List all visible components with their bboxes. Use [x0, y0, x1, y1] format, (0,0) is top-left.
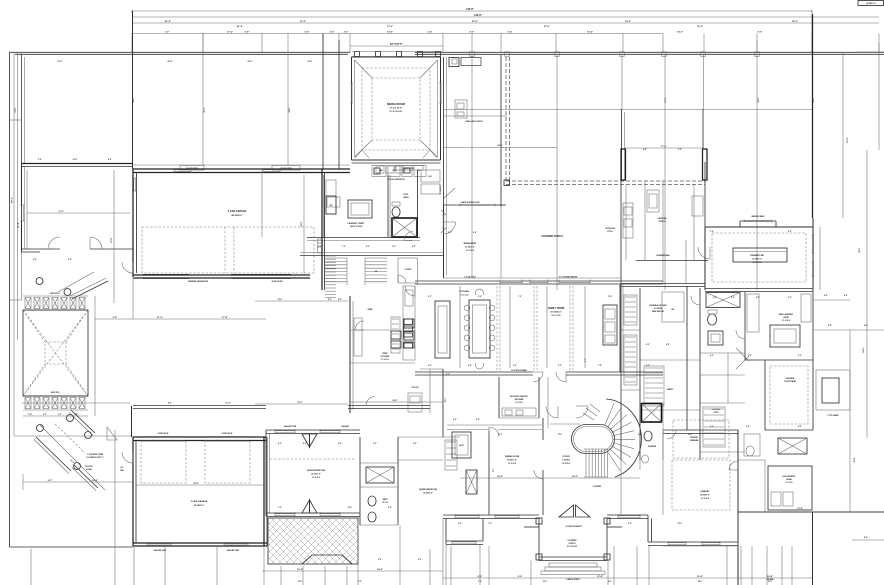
svg-text:4'-0": 4'-0" [453, 418, 457, 421]
svg-text:8'-0": 8'-0" [168, 403, 172, 405]
svg-text:6'-0": 6'-0" [428, 365, 432, 367]
svg-text:10'-0": 10'-0" [768, 581, 773, 583]
svg-text:MORNING BAR: MORNING BAR [656, 254, 670, 257]
dimension line top chain 5 [132, 33, 663, 35]
svg-text:4'-0": 4'-0" [710, 354, 714, 357]
svg-text:5'-4": 5'-4" [428, 31, 433, 34]
his shower xbox [778, 438, 807, 454]
svg-text:POOL: POOL [403, 194, 409, 196]
garage south wall double [133, 274, 310, 276]
svg-text:VERANDA: VERANDA [690, 439, 700, 442]
dimension extension ticks top [131, 34, 133, 53]
2car west door arc [122, 452, 133, 463]
svg-text:2'-0": 2'-0" [344, 32, 349, 34]
porte-cochere bottom band [23, 395, 88, 397]
garage west wall [132, 169, 134, 277]
2car dashed bays [141, 441, 186, 483]
court west wall [21, 164, 23, 253]
svg-text:5'-0": 5'-0" [746, 426, 750, 428]
stair hall wall [550, 423, 580, 425]
svg-text:12'-0X13'-0": 12'-0X13'-0" [465, 247, 475, 249]
east main wall [812, 14, 814, 218]
svg-text:16'-0": 16'-0" [572, 476, 578, 478]
guest ceiling dashed [270, 458, 356, 460]
svg-text:14'-0": 14'-0" [92, 479, 98, 482]
svg-text:A/C: A/C [121, 466, 125, 469]
guest south door leaves [302, 500, 310, 513]
svg-text:4'-0": 4'-0" [318, 245, 322, 248]
dimension line top chain 3 [132, 22, 879, 24]
svg-text:44'-0X24'-0": 44'-0X24'-0" [231, 214, 242, 217]
svg-text:6'-8": 6'-8" [666, 344, 670, 346]
roof overhang dashed rear [506, 180, 705, 182]
svg-text:5'-0": 5'-0" [378, 559, 382, 561]
svg-text:4'-0": 4'-0" [278, 442, 282, 445]
svg-text:9'-0": 9'-0" [418, 559, 422, 561]
driveway vertical lines [30, 549, 32, 585]
garage hall dims [261, 170, 263, 237]
svg-text:17'-6": 17'-6" [227, 32, 233, 34]
stair flight right [365, 257, 387, 259]
outdoor kitchen west wall [620, 181, 622, 290]
court door arcs [48, 237, 60, 249]
gallery east wall [704, 162, 706, 227]
svg-text:WINE: WINE [368, 309, 373, 311]
svg-text:9'-0": 9'-0" [446, 374, 450, 376]
washer dryer boxes [376, 166, 384, 173]
svg-text:WC: WC [671, 309, 675, 311]
guest north door leaves [302, 434, 310, 447]
garage door gaps [143, 274, 189, 278]
media room south sliding door [352, 162, 441, 164]
guest closet xbox [366, 467, 394, 483]
svg-text:LIBRARY: LIBRARY [700, 490, 710, 493]
svg-text:14'X16' 4' ISLD: 14'X16' 4' ISLD [350, 225, 363, 228]
svg-text:7'-0": 7'-0" [278, 507, 282, 509]
curved stair top treads [590, 404, 600, 412]
se hline [663, 545, 738, 547]
svg-text:14'-0X17'-4": 14'-0X17'-4" [507, 459, 517, 462]
svg-text:WINE DISPLAY: WINE DISPLAY [652, 310, 665, 313]
svg-text:4'-0": 4'-0" [864, 324, 868, 327]
porte-cochere canopy rect [23, 310, 88, 396]
svg-text:LIN: LIN [429, 176, 433, 178]
yard vertical b [202, 34, 204, 166]
svg-text:4'-0": 4'-0" [646, 343, 650, 346]
svg-text:ABV SHED RF: ABV SHED RF [390, 43, 403, 46]
her laundry north wall [705, 288, 813, 290]
shower courtyard walls [745, 359, 813, 361]
svg-text:16'-0": 16'-0" [298, 581, 303, 583]
crosshatch patio [268, 518, 358, 564]
svg-text:4'-0 DBL DR BRKOUT: 4'-0 DBL DR BRKOUT [566, 525, 582, 528]
west property line [9, 52, 11, 547]
svg-text:14'-0": 14'-0" [392, 399, 397, 402]
svg-text:4'-0": 4'-0" [58, 413, 62, 416]
walkway diagonals from court [72, 281, 108, 299]
foyer arch arcs [546, 406, 558, 418]
svg-text:6'-0": 6'-0" [788, 231, 792, 233]
primary bed [733, 248, 787, 262]
stair flight left [324, 257, 347, 259]
svg-text:6'-0": 6'-0" [824, 295, 828, 297]
pool equip nook [420, 368, 443, 370]
loggia column boxes top [470, 52, 474, 57]
driveway verticals below garage [133, 546, 135, 585]
veranda dashed [673, 420, 729, 458]
primary east windows [812, 235, 815, 253]
svg-text:KITCHEN: KITCHEN [459, 291, 469, 293]
2car garage west wall [132, 437, 134, 546]
svg-text:TANDEM GARAGE DR: TANDEM GARAGE DR [188, 280, 209, 283]
svg-text:GASLINE VENT: GASLINE VENT [227, 549, 240, 552]
extra dim vline marks [662, 430, 664, 460]
dimension line overall 140'-8 top [132, 10, 812, 12]
patio drive verticals [280, 566, 282, 585]
svg-text:ICE: ICE [418, 170, 421, 172]
patio vertical mid [556, 55, 558, 290]
svg-text:41'-4": 41'-4" [846, 137, 849, 142]
svg-text:41'-8": 41'-8" [237, 25, 243, 28]
svg-text:24'-0": 24'-0" [862, 347, 865, 352]
svg-text:23'-0": 23'-0" [472, 21, 478, 23]
wic shelf hatch [703, 407, 725, 447]
svg-text:11'-0": 11'-0" [498, 434, 503, 436]
svg-text:BATH: BATH [403, 196, 409, 199]
gallery walls [644, 181, 646, 260]
svg-text:LAUNDRY CRAFT: LAUNDRY CRAFT [348, 222, 366, 225]
library east wall [737, 430, 739, 543]
keeping hall walls [620, 372, 622, 403]
se right dim [852, 539, 884, 541]
svg-text:HER LAUNDRY: HER LAUNDRY [779, 313, 794, 316]
guest wing west wall [265, 430, 267, 516]
library south walls [607, 514, 648, 516]
breakfast dim vline [459, 286, 461, 368]
guest south wall double [266, 512, 360, 514]
svg-text:8'-0": 8'-0" [328, 299, 332, 301]
svg-text:2 CAR GARAGE: 2 CAR GARAGE [191, 500, 208, 503]
svg-text:OUTDOOR: OUTDOOR [605, 228, 615, 230]
garage slab dashed [142, 227, 314, 273]
svg-text:6'-0": 6'-0" [33, 259, 37, 261]
courtyard dashed [770, 366, 808, 424]
motor court diagonal wall 3 [74, 465, 98, 488]
east wing walls south [737, 430, 739, 512]
grilling porch column line [471, 55, 473, 278]
grilling porch west wall [443, 57, 445, 278]
svg-text:9'-0": 9'-0" [493, 468, 495, 472]
motor court diagonal dashed [55, 424, 85, 453]
garage interior dim [303, 175, 305, 273]
svg-text:6'-0": 6'-0" [788, 297, 792, 299]
yard vertical c [287, 54, 289, 165]
svg-text:6'-0": 6'-0" [638, 434, 642, 436]
svg-text:8'-6": 8'-6" [798, 426, 802, 428]
svg-text:MORNING KITCHEN: MORNING KITCHEN [649, 305, 667, 307]
bath hall walls [699, 288, 701, 460]
svg-text:17'-4": 17'-4" [222, 316, 228, 319]
garage west door arc [122, 262, 133, 273]
her laundry walls [744, 292, 746, 360]
patio vertical h [756, 40, 758, 290]
svg-text:13'-6": 13'-6" [558, 434, 563, 436]
kitchen west counters [403, 286, 415, 360]
laundry craft room walls [323, 175, 325, 237]
svg-text:5'-4": 5'-4" [113, 316, 118, 319]
primary bay window seat [740, 220, 776, 222]
primary bedroom walls [705, 226, 813, 228]
laundry island [348, 200, 372, 218]
svg-text:3'-0": 3'-0" [428, 296, 432, 298]
motor court angled dim [40, 425, 105, 490]
far east short lines [878, 43, 880, 150]
rear loggia inner line [443, 115, 507, 117]
porch corner column [504, 180, 510, 186]
svg-text:17'-6": 17'-6" [661, 146, 666, 148]
svg-text:14'-0": 14'-0" [698, 580, 703, 583]
svg-text:7'-0": 7'-0" [488, 523, 492, 525]
svg-text:8'-0": 8'-0" [358, 581, 362, 583]
dining east wall [542, 418, 544, 440]
svg-text:24'-0X24'-0": 24'-0X24'-0" [194, 504, 205, 507]
foyer hall arch arcs [533, 372, 543, 382]
svg-text:10'-0": 10'-0" [678, 523, 683, 525]
elevator [452, 432, 471, 458]
media room window west [350, 83, 353, 103]
svg-text:6'-0": 6'-0" [366, 246, 370, 248]
grill equipment boxes [449, 58, 459, 67]
svg-text:8'-0": 8'-0" [756, 297, 760, 299]
rear loggia south edge line [443, 109, 812, 111]
svg-text:12'-0": 12'-0" [348, 507, 353, 509]
front porch walls [538, 518, 540, 560]
svg-text:4'-0": 4'-0" [43, 413, 47, 416]
court A west wall [21, 54, 23, 164]
svg-text:9'-0": 9'-0" [608, 581, 612, 583]
svg-text:57'-8": 57'-8" [18, 222, 20, 228]
mid dim string y319 [95, 318, 266, 320]
svg-text:COVERED: COVERED [567, 540, 577, 542]
court north wall [22, 163, 134, 165]
svg-text:LANTERN: LANTERN [657, 217, 667, 220]
motor court gate door [107, 427, 117, 440]
dimension line top chain 2 [132, 16, 879, 18]
walkway columns [36, 278, 43, 285]
svg-text:21'-0": 21'-0" [665, 97, 667, 102]
court dim line y404 [255, 403, 348, 405]
svg-text:5'-0": 5'-0" [373, 443, 377, 445]
svg-text:17'-0": 17'-0" [387, 26, 393, 28]
study south bay [482, 519, 484, 542]
media room ceiling dashed [362, 68, 430, 150]
svg-text:9'-0 CLG: 9'-0 CLG [786, 482, 794, 484]
hline y403 [22, 402, 130, 404]
svg-text:9'-8": 9'-8" [828, 325, 832, 327]
west dimension chains [13, 52, 15, 436]
svg-text:5'-0": 5'-0" [338, 299, 342, 301]
svg-text:7'-4": 7'-4" [598, 364, 602, 367]
range cluster dark [391, 331, 401, 339]
closet shelf hatch a [624, 295, 637, 325]
svg-text:8'-6": 8'-6" [303, 443, 307, 445]
her laundry counters [747, 294, 759, 332]
wic walls [700, 352, 745, 354]
svg-text:9'-0": 9'-0" [48, 480, 53, 482]
library north wall double [663, 429, 738, 431]
svg-text:KITCHEN: KITCHEN [381, 356, 390, 358]
svg-text:NO STEP: NO STEP [85, 466, 93, 468]
svg-text:4-CAR GARAGE: 4-CAR GARAGE [228, 210, 247, 213]
media room porch band [350, 45, 443, 47]
court dim line y301 [255, 300, 348, 302]
svg-text:19'-0 CLG: 19'-0 CLG [562, 463, 571, 465]
svg-text:BATH: BATH [383, 498, 389, 501]
svg-text:18'-0": 18'-0" [758, 97, 760, 102]
svg-text:12'-0": 12'-0" [278, 299, 283, 301]
svg-text:COLUMN W 16X16" T: COLUMN W 16X16" T [86, 457, 104, 459]
her laundry island [770, 325, 800, 347]
curved stair inner capsule rail [572, 425, 615, 454]
svg-text:PAD: PAD [120, 469, 124, 472]
svg-text:5'-6": 5'-6" [305, 32, 310, 34]
svg-text:3'-0": 3'-0" [38, 159, 42, 161]
guest bath fixtures [368, 496, 376, 506]
queen bedroom [398, 436, 460, 438]
svg-text:9'-6": 9'-6" [413, 443, 417, 445]
laundry counters [327, 197, 340, 207]
2car garage north wall double with doors [133, 436, 266, 438]
kitchen island [435, 301, 450, 358]
svg-text:ELEV: ELEV [459, 445, 464, 447]
media room hip corner marks [355, 60, 373, 78]
foyer south wall double [443, 514, 539, 516]
study wall [442, 369, 444, 437]
primary ceiling dashed [712, 233, 806, 282]
2car dim line [136, 484, 264, 486]
north boundary line double [10, 51, 351, 53]
svg-text:8'-0": 8'-0" [108, 159, 112, 161]
garage sw stub [132, 278, 134, 319]
svg-text:GRILLING PORCH: GRILLING PORCH [465, 121, 483, 123]
outdoor kitchen inner wall [625, 185, 627, 261]
se inner line [812, 512, 814, 585]
primary vanity [708, 331, 723, 345]
dining table with chairs [469, 300, 490, 358]
svg-text:16'-0": 16'-0" [133, 97, 135, 102]
svg-text:23'-0": 23'-0" [544, 26, 550, 28]
svg-text:CTYD SHWR: CTYD SHWR [828, 415, 840, 417]
svg-text:9'-4": 9'-4" [508, 31, 513, 34]
svg-text:4'-0 ISLND: 4'-0 ISLND [654, 307, 663, 310]
svg-text:12'-0 CLG: 12'-0 CLG [551, 315, 561, 317]
svg-text:10'-0": 10'-0" [697, 576, 703, 578]
hall wall y429 [447, 429, 489, 431]
svg-text:GASLINE STUB: GASLINE STUB [284, 425, 297, 428]
svg-text:12'-0": 12'-0" [445, 398, 447, 403]
breakfast room [443, 205, 445, 278]
svg-text:10'-0": 10'-0" [387, 32, 393, 34]
court south dim line [23, 481, 133, 483]
service hall south wall [348, 405, 430, 407]
svg-text:SHOWER: SHOWER [786, 378, 795, 380]
svg-text:HIS LAUNDRY: HIS LAUNDRY [783, 475, 797, 478]
svg-text:POOL EQ: POOL EQ [411, 387, 419, 389]
svg-text:9'-0": 9'-0" [518, 576, 523, 578]
svg-text:10' CLG: 10' CLG [382, 502, 389, 504]
svg-text:10'-6": 10'-6" [73, 159, 78, 161]
wc room [662, 292, 684, 322]
svg-text:12'-0 CLG: 12'-0 CLG [701, 498, 710, 500]
study bookcases [445, 440, 457, 470]
svg-text:140'-8": 140'-8" [466, 8, 474, 11]
butlers pantry walls [498, 377, 500, 418]
svg-text:140'-8": 140'-8" [474, 14, 482, 17]
linen boxes [421, 170, 440, 182]
svg-text:BREAKFAST: BREAKFAST [464, 242, 477, 245]
pool wc [392, 207, 400, 217]
garage north wall double [133, 168, 350, 170]
svg-text:STOR: STOR [714, 412, 719, 414]
east bath fixtures [744, 434, 760, 456]
svg-text:12'-4": 12'-4" [597, 575, 603, 578]
svg-text:23'-4": 23'-4" [193, 482, 198, 485]
patio vertical g [703, 55, 705, 109]
2car garage east wall [263, 437, 265, 546]
bottom dim hline 2 [443, 577, 663, 579]
svg-text:14'-0": 14'-0" [377, 568, 383, 571]
svg-text:FOYER: FOYER [562, 456, 570, 458]
svg-text:4'-6": 4'-6" [412, 245, 416, 248]
rear porch east wall [621, 55, 623, 109]
svg-text:24'-0": 24'-0" [497, 144, 502, 147]
outdoor tub nook [816, 370, 850, 410]
svg-text:8'-6": 8'-6" [643, 149, 647, 151]
svg-text:9'-6": 9'-6" [245, 32, 250, 34]
primary shower xbox [706, 293, 740, 308]
svg-text:DRAIN: DRAIN [786, 478, 792, 481]
svg-text:9'-6": 9'-6" [478, 296, 482, 298]
svg-text:1'-0": 1'-0" [165, 32, 170, 34]
motor court columns [37, 425, 44, 432]
svg-text:5'-0": 5'-0" [392, 246, 396, 248]
svg-text:A2 REV 5.2: A2 REV 5.2 [866, 2, 876, 5]
svg-text:ISLND: ISLND [783, 317, 789, 319]
svg-text:9'-0": 9'-0" [68, 259, 72, 261]
patio columns tall [621, 149, 626, 180]
svg-text:24'-6": 24'-6" [288, 107, 291, 112]
svg-text:GATE STN: GATE STN [51, 391, 60, 394]
svg-text:11'-0": 11'-0" [608, 296, 613, 298]
svg-text:FAMILY ROOM: FAMILY ROOM [548, 307, 565, 310]
svg-text:10'-0": 10'-0" [297, 569, 303, 571]
svg-text:41'-8": 41'-8" [165, 20, 171, 23]
his laundry room [764, 460, 766, 512]
library west wall [662, 470, 664, 515]
svg-text:5'-0": 5'-0" [646, 365, 650, 367]
svg-text:11'-0 CLG: 11'-0 CLG [508, 463, 517, 465]
yard vertical d [322, 34, 324, 170]
bottom dim hline 1 [262, 570, 443, 572]
se wall x738 down [737, 546, 739, 585]
svg-text:31'-0": 31'-0" [15, 107, 17, 112]
grill counter [455, 100, 467, 118]
yard vertical e [338, 40, 340, 169]
front double door leaves [559, 505, 574, 517]
porch corner posts [536, 518, 542, 524]
svg-text:GASLINE: GASLINE [341, 425, 349, 428]
family kitchen north wall double with windows [415, 280, 663, 282]
